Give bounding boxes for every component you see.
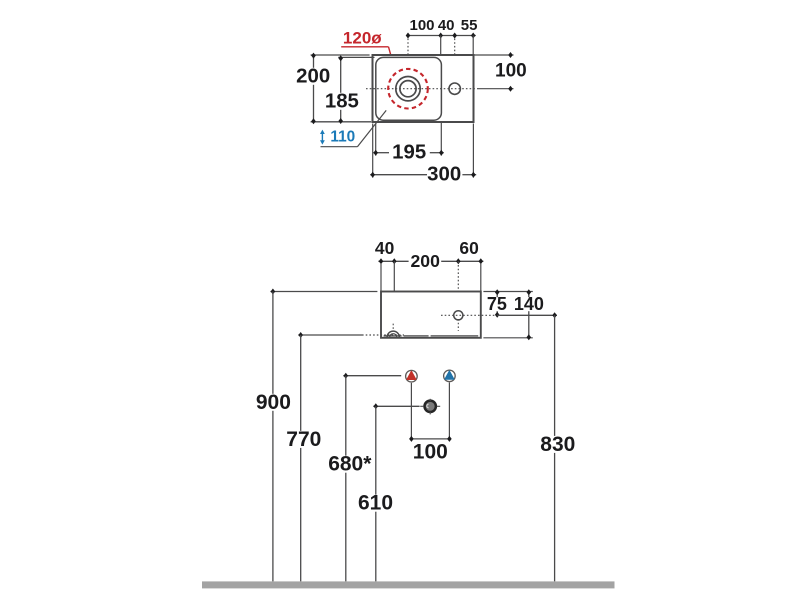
svg-text:610: 610 (358, 492, 393, 515)
svg-text:110: 110 (330, 129, 355, 146)
label: 195 (392, 142, 426, 164)
wire: front top dim line left segment (378, 260, 408, 262)
wire: front top dim line right segment (441, 260, 483, 262)
wire: extension x=394.3 to rect top (393, 261, 395, 291)
wire: dim line 100 between valves (411, 438, 449, 440)
wire: reference line y=406.3 (waste) for 610 (373, 405, 419, 407)
wire: dim line 140 vertical (528, 292, 530, 338)
svg-text:200: 200 (411, 251, 441, 271)
label: 770 (284, 428, 324, 451)
wire: extension x=381 dim to rect top (380, 263, 382, 292)
label: 100 (top plan dim) (409, 17, 434, 34)
label: 680* (327, 453, 373, 476)
wire: extension line x=473.2 down to basin top (472, 36, 474, 55)
drain inner circle (plan) (400, 81, 416, 97)
svg-text:100: 100 (495, 60, 527, 81)
wire: extension from cold valve down (448, 383, 450, 439)
wire: leader diagonal for 110 to bowl corner (357, 110, 386, 146)
wire: dotted crosshair horizontal through faucet hole (441, 314, 497, 316)
svg-text:40: 40 (438, 17, 455, 34)
wire: extension x=372.7 below basin (300) (372, 124, 374, 178)
label: 40 (top plan dim) (438, 17, 455, 34)
wire: dim line 185 vertical (340, 57, 342, 121)
hot water valve circle (left) (406, 370, 418, 382)
wire: dotted vertical through faucet hole below (457, 319, 459, 331)
red dashed circle 120ø (388, 69, 428, 109)
wire: dim line 200 vertical (313, 55, 315, 122)
node: dim marker (473.4,174.7) (471, 172, 476, 178)
svg-text:195: 195 (392, 142, 426, 164)
wire: extension x=441.3 below bowl (440, 123, 442, 156)
faucet hole circle (plan) (449, 83, 460, 94)
wire: reference line y=335 solid part (770) (298, 334, 362, 336)
node: dim marker right (510.5,55) (508, 52, 513, 58)
node: dim marker (372.7,174.7) (370, 172, 375, 178)
svg-text:40: 40 (375, 238, 394, 258)
node: dim marker (340.7,121) (338, 118, 343, 124)
wire: extension x=375.7 below basin (375, 124, 377, 156)
node: dim marker (375.8,406.3) (374, 403, 379, 409)
wire: waste crosshair top dash (429, 399, 431, 401)
node: dim marker (480.8,261.3) (479, 258, 484, 264)
basin front outline (300x140) (381, 292, 481, 338)
wire: dotted vertical above overflow dome (392, 324, 394, 332)
label: 610 (356, 492, 396, 515)
basin front inner bottom lip (384, 335, 479, 337)
label: 140 (512, 294, 546, 314)
wire: plan top dimension line (100/40/55) (407, 35, 476, 37)
node: dim marker (441.3,152.7) (439, 150, 444, 156)
wire: dim line 830 vertical (554, 315, 556, 581)
wire: extension from hot valve down (410, 383, 412, 439)
wire: plan right dim centerline y=88.7 (479, 88, 514, 90)
wire: dim line 300 left segment (370, 174, 427, 176)
label: 200 (plan left) (296, 65, 331, 87)
wire: extension line y=55 to the left (311, 54, 370, 56)
wire: plan right dim top line y=55 (474, 54, 514, 56)
wire: extension line y=122 bottom to the left (311, 121, 372, 123)
node: dim marker (375.7,152.7) (373, 150, 378, 156)
wire: rim height reference line to 900 (270, 291, 377, 293)
svg-text:900: 900 (256, 391, 291, 414)
wire: dim line 900 vertical (272, 292, 274, 582)
wire: red leader diagonal to drain dashed circle (389, 47, 396, 73)
svg-text:60: 60 (459, 238, 478, 258)
wire: extension line x=440.7 down to basin top (440, 36, 442, 55)
wire: waste crosshair right dash (437, 405, 440, 407)
wire: dim line 195 left segment (373, 152, 389, 154)
node: dim marker right (510.5,88.7) (508, 86, 513, 92)
wire: dotted centerline through drain (vertical) (407, 39, 409, 120)
wire: leader underline for 110 (321, 146, 358, 148)
cold water valve circle (right) (444, 370, 456, 382)
wire: waste crosshair left dash (420, 405, 423, 407)
faucet hole circle (front) (454, 311, 463, 320)
overflow dome inner arc (390, 334, 397, 338)
hot water red triangle (407, 371, 416, 379)
svg-text:100: 100 (413, 441, 448, 464)
wire: dim line 610 vertical (375, 406, 377, 581)
label: blue updown arrow for 110 (320, 130, 325, 145)
wire: dim line 300 right segment (462, 174, 476, 176)
svg-text:100: 100 (409, 17, 434, 34)
svg-text:75: 75 (487, 294, 507, 314)
node: dim marker (528.8,291.5) (527, 289, 532, 295)
basin plan bowl inner outline (195 wide) (376, 57, 442, 120)
label: 60 (front) (459, 238, 478, 258)
wire: reference line y=335 dotted part (362, 334, 404, 336)
node: dim marker at faucet centerline x=454.7 (452, 33, 457, 39)
wire: dotted centerline through faucet (vertical) (454, 39, 456, 113)
svg-text:770: 770 (286, 428, 321, 451)
wire: dim line 680* vertical (345, 376, 347, 582)
wire: extension x=480.8 dim to rect top (480, 263, 482, 292)
svg-text:200: 200 (296, 65, 330, 87)
label: 300 (427, 164, 461, 186)
node: dim marker (272.9,291.5) (271, 289, 276, 295)
cold water blue triangle (445, 371, 454, 379)
node: dim marker (381,261.3) (379, 258, 384, 264)
wire: dotted horizontal centerline through drain+faucet (366, 88, 479, 90)
wire: reference line y=375.7 (valves) for 680* (343, 375, 401, 377)
svg-text:185: 185 (325, 90, 359, 112)
wire: extension x=473.4 below basin (300) (472, 124, 474, 178)
label: 185 (plan left) (324, 90, 359, 112)
label: 110 (bowl depth, blue) (330, 129, 355, 146)
node: dim marker (497.2,291.5) (495, 289, 500, 295)
label: 100 (plan right dim) (495, 60, 527, 81)
node: dim marker (411.4,438.9) (409, 436, 414, 442)
node: dim marker (394.3,261.3) (392, 258, 397, 264)
wire: extension line y=57.4 bowl top to the left (338, 56, 374, 58)
label: 200 (front) (411, 251, 441, 271)
wire: dim line 75 vertical (496, 292, 498, 316)
node: dim marker (528.8,337.8) (527, 334, 532, 340)
basin plan outer outline (300x200) (373, 55, 474, 122)
node: dim marker (313.5,55) (311, 53, 316, 59)
label: 55 (top plan dim) (461, 17, 478, 34)
svg-text:680*: 680* (328, 453, 372, 476)
svg-text:120ø: 120ø (343, 29, 382, 48)
label: 100 (valve spacing) (413, 441, 448, 464)
wire: waste crosshair bottom dash (429, 412, 431, 415)
node: dim marker (340.7,58) (338, 55, 343, 61)
floor bar (202, 581, 615, 588)
node: dim marker (345.8,375.7) (344, 373, 349, 379)
node: dim marker (497.2,315.3) (495, 312, 500, 318)
wire: dim line 770 vertical (300, 335, 302, 581)
node: dim marker at x=440.7 (100 from drain) (438, 33, 443, 39)
node: dim marker at basin right edge x=473 (471, 33, 476, 39)
node: dim marker at drain centerline x=408 (406, 33, 411, 39)
drain outer circle (plan) (396, 77, 420, 101)
wire: extension y=291.5 right of basin (483, 291, 532, 293)
svg-text:300: 300 (427, 164, 461, 186)
node: dim marker (458.3,261.3) (456, 258, 461, 264)
node: dim marker (554.6,315.3) (552, 312, 557, 318)
label: 75 (486, 294, 508, 314)
wire: faucet height reference line to 830 (497, 314, 557, 316)
wire: red leader underline for 120ø (341, 46, 388, 48)
overflow dome outer arc (387, 331, 399, 337)
svg-text:140: 140 (514, 294, 544, 314)
label: 900 (253, 391, 293, 414)
svg-text:55: 55 (461, 17, 478, 34)
label: 40 (front) (375, 238, 394, 258)
wire: dim line 195 right segment (430, 152, 444, 154)
wire: extension y=337.8 right of basin (483, 337, 532, 339)
node: dim marker (449.4,438.9) (447, 436, 452, 442)
node: dim marker (300.7,335) (298, 332, 303, 338)
wire: dotted extension x=458.3 to faucet hole (457, 261, 459, 311)
node: dim marker (313.5,122) (311, 118, 316, 124)
label: 120ø red annotation (343, 29, 382, 48)
label: 830 (538, 433, 578, 456)
waste pipe dark circle (425, 401, 436, 412)
svg-text:830: 830 (540, 433, 575, 456)
